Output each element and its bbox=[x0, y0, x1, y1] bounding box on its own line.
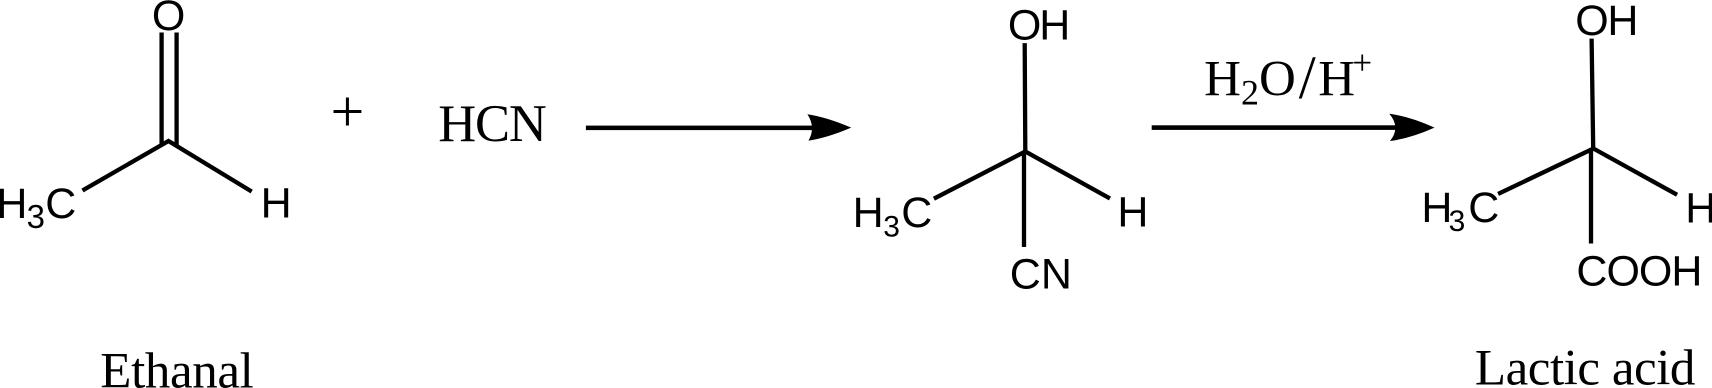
arrow 2 head bbox=[1389, 114, 1434, 141]
cyanohydrin: bonds C-CH3 and C-H bbox=[934, 152, 1110, 199]
svg-text:+: + bbox=[330, 78, 364, 144]
svg-text:OH: OH bbox=[1008, 2, 1070, 50]
ethanal: C=O double bond right line bbox=[174, 33, 178, 148]
ethanal: C=O double bond left line bbox=[159, 33, 163, 146]
lactic acid: bond C-COOH bbox=[1589, 149, 1593, 244]
lactic acid: bond O-C bbox=[1592, 39, 1594, 149]
arrow 2 shaft bbox=[1152, 125, 1397, 130]
svg-text:Ethanal: Ethanal bbox=[100, 343, 254, 388]
svg-text:O: O bbox=[152, 0, 185, 40]
svg-text:OH: OH bbox=[1575, 0, 1638, 45]
lactic acid: bonds C-CH3 and C-H bbox=[1498, 149, 1677, 195]
cyanohydrin: bond C-CN bbox=[1022, 152, 1026, 248]
svg-text:Lactic acid: Lactic acid bbox=[1475, 341, 1696, 388]
svg-text:H2O/H+: H2O/H+ bbox=[1204, 44, 1372, 113]
svg-text:CN: CN bbox=[1010, 251, 1072, 299]
svg-text:H: H bbox=[1685, 184, 1712, 232]
svg-text:H: H bbox=[261, 180, 292, 228]
ethanal: bonds C-CH3 and C-H bbox=[83, 141, 252, 192]
svg-text:COOH: COOH bbox=[1576, 247, 1701, 295]
cyanohydrin: bond O-C bbox=[1023, 43, 1028, 151]
arrow 1 shaft bbox=[586, 126, 816, 131]
svg-text:H: H bbox=[1117, 189, 1148, 237]
arrow 1 head bbox=[807, 114, 851, 140]
svg-text:HCN: HCN bbox=[438, 95, 547, 153]
